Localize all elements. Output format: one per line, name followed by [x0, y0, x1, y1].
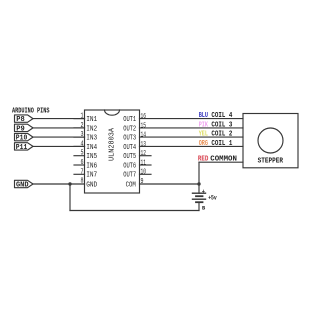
pin tag GND [15, 180, 34, 189]
svg-text:B: B [202, 204, 206, 211]
svg-text:P9: P9 [16, 125, 25, 133]
svg-text:1: 1 [81, 113, 84, 121]
svg-text:IN2: IN2 [86, 125, 97, 133]
svg-text:COM: COM [126, 181, 136, 189]
svg-text:8: 8 [81, 178, 84, 186]
svg-text:15: 15 [141, 122, 147, 130]
svg-text:6: 6 [81, 159, 84, 167]
svg-text:COIL 1: COIL 1 [211, 140, 232, 148]
svg-text:OUT7: OUT7 [123, 172, 136, 180]
wire RED COMMON horizontal [199, 161, 243, 163]
wire P9 to U1 pin 2 [33, 127, 85, 129]
junction on GND wire [68, 182, 71, 185]
pin tag P11 [15, 143, 34, 152]
svg-text:IN3: IN3 [86, 135, 97, 143]
U1 pin 3 IN3 [74, 131, 97, 142]
U1 pin 5 IN5 [74, 150, 97, 161]
svg-text:ARDUINO PINS: ARDUINO PINS [12, 107, 50, 115]
svg-text:GND: GND [86, 181, 97, 189]
svg-text:PIK: PIK [199, 122, 209, 130]
wire P8 to U1 pin 1 [33, 118, 85, 120]
U1 pin 2 IN2 [74, 122, 97, 133]
svg-text:P11: P11 [16, 144, 27, 152]
svg-text:IN4: IN4 [86, 144, 97, 152]
svg-text:16: 16 [141, 113, 147, 121]
svg-text:OUT4: OUT4 [123, 144, 136, 152]
svg-text:IN7: IN7 [86, 172, 97, 180]
svg-text:+5v: +5v [208, 194, 217, 201]
wire RED COMMON vertical to battery plus [198, 162, 200, 193]
U1 pin 15 OUT2 [123, 122, 146, 133]
wire OUT4 to stepper coil 1 [140, 145, 244, 147]
wire OUT1 to stepper coil 4 [140, 118, 244, 120]
U1 pin 10 OUT7 [123, 169, 151, 180]
svg-text:OUT1: OUT1 [123, 116, 136, 124]
svg-text:ORG: ORG [199, 140, 208, 148]
wire COM to +5v node [140, 183, 200, 185]
svg-text:P8: P8 [16, 116, 25, 124]
U1 pin 16 OUT1 [123, 113, 146, 124]
net label ORG COIL 1 [199, 140, 233, 148]
svg-text:3: 3 [81, 131, 84, 139]
svg-text:OUT6: OUT6 [123, 162, 136, 170]
svg-text:14: 14 [141, 132, 147, 140]
U1 pin 8 GND [81, 178, 98, 190]
text ARDUINO PINS [12, 107, 50, 115]
net label BLU COIL 4 [199, 112, 233, 120]
net label RED COMMON [198, 156, 237, 164]
pin tag P8 [15, 115, 34, 124]
U1 pin 4 IN4 [74, 140, 97, 151]
svg-text:11: 11 [141, 159, 147, 167]
svg-text:YEL: YEL [199, 131, 208, 139]
wire GND down from junction [69, 184, 71, 211]
svg-text:IN1: IN1 [86, 116, 97, 124]
wire P10 to U1 pin 3 [33, 136, 85, 138]
U1 pin 1 IN1 [74, 113, 97, 124]
U1 pin 7 IN7 [74, 168, 97, 179]
svg-text:2: 2 [81, 122, 84, 130]
svg-text:COIL 4: COIL 4 [211, 112, 232, 120]
wire OUT3 to stepper coil 2 [140, 136, 244, 138]
svg-text:10: 10 [141, 169, 147, 177]
svg-text:9: 9 [141, 178, 144, 186]
wire OUT2 to stepper coil 3 [140, 127, 244, 129]
wire GND to U1 pin 8 [33, 183, 85, 185]
U1 pin 6 IN6 [74, 159, 97, 170]
op-amp U1 ULN2803A body [85, 110, 140, 193]
pin tag P10 [15, 133, 34, 142]
svg-text:IN6: IN6 [86, 162, 97, 170]
svg-text:OUT3: OUT3 [123, 135, 136, 143]
svg-text:4: 4 [81, 140, 84, 148]
pin tag P9 [15, 124, 34, 133]
svg-text:7: 7 [81, 168, 84, 176]
svg-text:COIL 3: COIL 3 [211, 122, 232, 130]
battery +5v [193, 188, 218, 212]
svg-text:ULN2803A: ULN2803A [109, 127, 117, 161]
junction COM / +5v [197, 182, 200, 185]
U1 pin 13 OUT4 [123, 141, 146, 152]
U1 pin 14 OUT3 [123, 132, 146, 143]
net label PIK COIL 3 [199, 122, 233, 130]
svg-text:OUT5: OUT5 [123, 153, 136, 161]
svg-text:12: 12 [141, 150, 147, 158]
U1 pin 11 OUT6 [123, 159, 151, 170]
net label YEL COIL 2 [199, 131, 233, 139]
svg-text:BLU: BLU [199, 112, 208, 120]
svg-text:5: 5 [81, 150, 84, 158]
wire P11 to U1 pin 4 [33, 145, 85, 147]
svg-text:STEPPER: STEPPER [258, 158, 284, 166]
svg-text:GND: GND [16, 181, 29, 189]
svg-text:COIL 2: COIL 2 [211, 131, 232, 139]
svg-text:IN5: IN5 [86, 153, 97, 161]
stepper motor M1 [243, 114, 298, 168]
svg-text:OUT2: OUT2 [123, 125, 136, 133]
U1 pin 12 OUT5 [123, 150, 151, 161]
svg-text:13: 13 [141, 141, 147, 149]
wire GND bottom run to battery minus [70, 210, 199, 212]
svg-text:P10: P10 [16, 135, 27, 143]
U1 pin 9 COM [126, 178, 144, 189]
